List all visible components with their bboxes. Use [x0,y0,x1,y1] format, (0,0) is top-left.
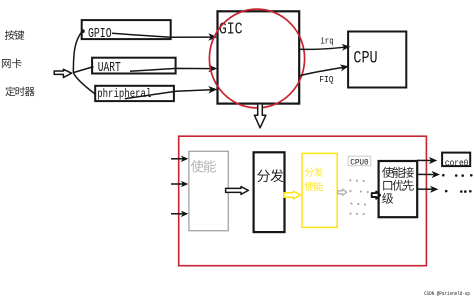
block arrow input sources [54,69,71,77]
svg-text:CPU0: CPU0 [350,157,369,167]
svg-text:core0: core0 [445,157,469,168]
wire phripheral to GIC [125,90,211,99]
wire UART to GIC [130,68,211,71]
wire irq GIC to CPU [299,47,344,49]
wire FIQ GIC to CPU [299,67,343,75]
wire to core1 (dots) [417,173,434,175]
label 网卡 (network card) [2,59,11,68]
block arrow GIC down to detail [254,104,266,128]
gray ellipsis dots (more CPU interfaces) [349,179,369,215]
GIC box U1 [218,11,300,103]
svg-text:phripheral: phripheral [97,88,151,101]
black ellipsis dots row 1 [442,174,473,177]
CPU0 box (light gray) [348,156,371,165]
red detail rectangle [179,136,427,266]
wire fan to GPIO [73,31,82,73]
UART box [92,58,176,74]
enable box 使能 (gray) [189,151,228,230]
interface box 使能接口优先级 [379,161,418,217]
svg-text:CPU: CPU [353,48,377,68]
yellow block arrow distributor to dist-enable [284,191,300,199]
black block arrow into interface box [372,192,381,199]
block arrow enable to distributor [226,187,249,195]
svg-text:irq: irq [320,37,333,47]
distributor box 分发 [254,152,285,232]
gray block arrow dist-enable to interface [338,189,347,195]
dist-enable box 分发使能 (yellow) [302,153,337,227]
core0 box [442,153,470,167]
wire fan to UART [73,67,93,73]
red ellipse annotation around GIC [209,9,304,108]
CPU box [348,32,406,88]
wire input arrow 1 into enable box [171,158,183,160]
wire GPIO to GIC [112,33,211,37]
svg-text:FIQ: FIQ [319,75,333,85]
wire fan to phripheral [73,73,95,94]
phripheral box [95,86,174,101]
label 定时器 (timer) [5,86,15,96]
black ellipsis dots row 2 [445,190,472,193]
wire input arrow 2 into enable box [171,183,183,185]
svg-text:UART: UART [98,61,121,76]
label 按键 (button) [5,30,15,40]
wire input arrow 3 into enable box [171,213,183,215]
wire to coreN (dots) [417,188,432,190]
GPIO box [82,20,171,39]
svg-text:CSDN @Parisnold-up: CSDN @Parisnold-up [424,291,470,297]
svg-text:GIC: GIC [219,20,243,39]
svg-text:GPIO: GPIO [88,27,112,42]
wire to core0 [417,159,431,161]
